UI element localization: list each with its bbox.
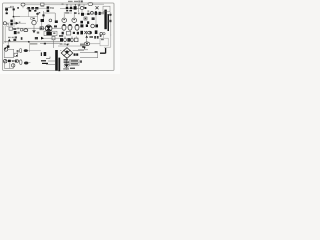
capacitor C21 — [44, 43, 46, 45]
speck in choke — [53, 32, 55, 34]
resistor R15 — [62, 32, 64, 35]
electrolytic C26 — [95, 11, 98, 15]
capacitor C19 — [88, 31, 92, 34]
jack sleeve — [20, 49, 22, 53]
table divider — [70, 62, 79, 64]
dark blob in relay box — [104, 10, 106, 12]
resistor R2 — [27, 7, 30, 9]
label text row — [60, 43, 63, 44]
transistor Q4 — [72, 18, 77, 23]
wire from J1 — [11, 22, 26, 24]
terminal J1 — [3, 22, 6, 25]
capacitor C25 plate — [41, 60, 46, 61]
speck row right2 — [78, 13, 80, 15]
label text q — [65, 12, 69, 13]
speck below speaker — [63, 68, 66, 69]
resistor R7 — [70, 7, 72, 9]
transistor Q1 — [80, 6, 83, 9]
rectifier BR1 X — [46, 26, 51, 31]
lamp DS3 — [20, 29, 23, 32]
lamp DS2 — [88, 3, 93, 6]
relay K1 box — [103, 6, 110, 12]
junction dot above bridge — [67, 44, 69, 46]
pilot lamp — [12, 64, 15, 67]
switch S3 fill — [41, 27, 43, 29]
bridge BR2 diamond — [61, 48, 73, 59]
resistor R19 — [80, 31, 83, 35]
connector J5 slash — [4, 60, 6, 62]
wire tube — [33, 25, 35, 30]
module U3 box — [74, 38, 78, 42]
wire top bus — [25, 3, 104, 6]
resistor R11 — [55, 20, 58, 23]
speck under lamp — [87, 10, 89, 11]
choke L1 box — [44, 31, 57, 35]
resistor R16 — [80, 24, 83, 27]
lamp DS1 — [21, 3, 25, 6]
label speck left — [62, 4, 64, 5]
wire from P1 — [28, 49, 41, 51]
capacitor C27 — [17, 7, 19, 9]
label 17m — [70, 68, 75, 69]
resistor R22 — [8, 60, 11, 62]
label amp — [80, 60, 82, 62]
capacitor C3 — [34, 10, 36, 12]
speck r3 — [17, 32, 19, 34]
label text small — [30, 43, 37, 44]
wire x37 vertical — [36, 12, 39, 22]
wire under arrow — [78, 50, 98, 58]
ground mark — [32, 30, 36, 33]
dot in K4 — [16, 55, 17, 56]
electrolytic C14 — [62, 25, 66, 31]
plug P1 — [24, 49, 28, 52]
transistor Q3 die — [64, 19, 65, 20]
jack sleeve 2 — [20, 60, 22, 65]
capacitor C23 — [74, 53, 76, 55]
capacitor C12 — [24, 29, 28, 32]
resistor Ra — [84, 7, 86, 9]
tube V1 — [32, 20, 36, 24]
transistor Q2 — [49, 19, 52, 22]
wire step — [46, 57, 50, 59]
switch S4 — [52, 36, 55, 39]
ground circle — [64, 63, 69, 68]
ground triangle — [64, 64, 68, 67]
wire transistor pair — [64, 12, 74, 17]
electrolytic C15 top — [69, 24, 72, 26]
transistor Q5 — [91, 12, 94, 15]
wire power row — [12, 22, 62, 28]
wire row2 left — [26, 8, 47, 11]
arrow above box — [100, 35, 102, 37]
resistor R12 — [81, 13, 84, 16]
module U1 — [60, 38, 63, 42]
second jack ring — [6, 24, 9, 27]
connector J5 — [3, 60, 6, 63]
capacitor C5 — [66, 10, 68, 11]
output box — [100, 38, 108, 46]
diode D1 X — [84, 31, 87, 34]
transformer T3 core bar — [104, 11, 106, 29]
electrolytic C16 top — [76, 24, 79, 26]
label row text — [8, 37, 11, 38]
switch S3 — [40, 27, 43, 30]
transistor Q6 — [91, 24, 95, 28]
relay K4 box — [14, 53, 18, 56]
label marks 1 — [41, 52, 42, 56]
wire meter vertical — [86, 34, 88, 42]
wire left mid verticals — [4, 17, 14, 44]
capacitor C17 — [73, 32, 75, 34]
switch S1 — [41, 3, 44, 6]
resistor R14 — [80, 21, 83, 24]
speck below speaker 2 — [67, 68, 69, 69]
node D dot — [33, 18, 35, 20]
diode D2 — [94, 36, 96, 39]
choke L1 winding — [46, 32, 51, 35]
label marks bl — [12, 60, 14, 62]
arrow down — [83, 47, 86, 50]
label 5 — [17, 50, 19, 52]
capacitor C11 — [14, 31, 17, 34]
wire drop from node C — [29, 42, 31, 52]
resistor R6 — [66, 7, 68, 9]
node C — [28, 41, 30, 43]
label text row c — [67, 43, 69, 44]
capacitor C24 — [76, 53, 78, 55]
tube V3 — [71, 38, 73, 42]
node D — [30, 17, 32, 19]
relay box K2 — [9, 27, 12, 30]
wire from J4 — [4, 49, 14, 58]
resistor R4 — [35, 7, 38, 9]
speck r2 — [17, 28, 19, 30]
wire right of bar — [108, 12, 112, 36]
wire long horizontal — [4, 41, 60, 43]
capacitor C10 — [92, 17, 95, 20]
module U2 — [67, 38, 70, 42]
label F — [89, 36, 93, 38]
diode X mark — [96, 6, 99, 9]
terminal pair J3 — [100, 32, 103, 35]
diode D2b — [97, 36, 99, 39]
label row text 2 — [12, 37, 14, 38]
electrolytic C14 top — [63, 24, 66, 26]
bridge BR2 X — [63, 50, 70, 56]
resistor R20 — [95, 30, 98, 34]
resistor R9b — [10, 23, 12, 26]
label marks right — [35, 37, 38, 39]
speaker plates — [64, 59, 69, 60]
winding dot 2 — [109, 20, 111, 22]
speck right of R5 — [50, 7, 52, 8]
capacitor C9 — [42, 14, 44, 16]
resistor R9 — [10, 20, 12, 23]
capacitor C13 label — [54, 25, 57, 27]
capacitor C6 — [69, 10, 72, 11]
resistor R3 — [31, 7, 34, 9]
label row text 3 — [15, 36, 17, 38]
terminal pair J3b — [103, 33, 105, 35]
meter M1 — [84, 42, 90, 46]
cross junction — [78, 4, 81, 6]
speck by choke — [37, 32, 39, 34]
contact mark — [95, 51, 98, 52]
capacitor C28 — [87, 21, 89, 24]
switch S1 underline — [41, 5, 45, 7]
blob under meter left — [82, 46, 85, 48]
capacitor C20 — [13, 39, 16, 41]
transistor Q3 — [62, 18, 67, 23]
node A — [52, 7, 54, 9]
rectifier BR1 wedge top — [46, 26, 50, 29]
capacitor C8 — [36, 13, 38, 15]
wire right corner — [99, 34, 111, 47]
label specks row — [80, 44, 86, 45]
speck row right — [74, 12, 77, 14]
cap ellipse bl — [15, 60, 19, 63]
capacitor C2 — [29, 10, 32, 12]
arrow right — [14, 22, 18, 24]
transformer T4 bar B — [58, 58, 60, 72]
wire bridge row — [60, 50, 84, 52]
relay K3 box — [66, 31, 70, 35]
transformer T3 core bar 2 — [108, 14, 110, 31]
node B — [13, 16, 15, 18]
contact marks — [13, 28, 16, 30]
resistor R21 — [7, 45, 10, 47]
tube V2 — [64, 38, 67, 42]
box text speck — [101, 39, 104, 40]
meter M1 dot — [86, 43, 88, 45]
resistor R10 — [41, 19, 44, 22]
rectifier BR1 wedge bottom — [46, 28, 50, 31]
wire y43.5 — [40, 40, 62, 48]
resistor R18 — [95, 24, 98, 27]
wire tail P2 — [28, 62, 30, 64]
arrow blob — [41, 37, 44, 40]
label text block 1 — [71, 60, 78, 61]
wire left vertical — [7, 11, 20, 17]
transformer T4 bar A — [55, 50, 58, 71]
capacitor C19 dark half — [90, 32, 92, 34]
capacitor C22 — [44, 52, 47, 56]
capacitor C25 plate2 — [42, 63, 48, 64]
label A mark — [21, 37, 23, 40]
label text block 2 — [71, 63, 78, 64]
capacitor C4 — [47, 10, 50, 12]
resistor R13 — [87, 13, 89, 15]
table box — [70, 60, 79, 66]
transistor Q4 die — [74, 19, 75, 20]
bridge BR2 center — [66, 51, 69, 54]
capacitor C1 — [13, 8, 15, 10]
label text row b — [64, 43, 67, 44]
wire drop left — [7, 42, 9, 47]
dot in S2 — [85, 18, 86, 19]
electrolytic C16 — [75, 25, 79, 31]
cap dark half — [15, 60, 17, 62]
label M — [79, 1, 80, 3]
wire right cluster — [84, 14, 104, 24]
wire y38 — [44, 37, 60, 39]
arrow mark — [8, 39, 11, 41]
resistor R17 — [86, 24, 88, 27]
rectifier BR1 — [45, 25, 52, 32]
switch S2 box — [84, 17, 87, 20]
resistor R23 — [99, 12, 101, 15]
resistor R5 — [47, 6, 50, 8]
electrolytic C15 — [68, 25, 72, 31]
wire thick stub — [100, 48, 106, 53]
capacitor C7 — [6, 12, 8, 14]
label text near bar — [100, 12, 104, 13]
speaker wire — [66, 57, 68, 70]
wire mid row — [14, 6, 38, 17]
speck r — [19, 22, 21, 24]
module stems — [65, 36, 76, 38]
wire to T4 — [46, 61, 55, 65]
label text T1 — [68, 1, 73, 2]
wire right meter — [80, 43, 100, 45]
meter arrow — [85, 35, 88, 38]
wire bottom-left — [4, 61, 20, 69]
dark dash wire — [59, 35, 63, 36]
wire mid-top cluster — [60, 4, 84, 13]
label M2 — [81, 1, 83, 3]
speck corner — [39, 12, 41, 13]
border frame — [3, 3, 114, 71]
winding dot 1 — [109, 14, 111, 16]
wire y44 mid — [58, 44, 84, 46]
capacitor C18 — [77, 32, 79, 35]
resistor R1 — [5, 8, 8, 10]
connector J4 wedge — [4, 48, 6, 50]
speaker plates 2 — [64, 62, 69, 63]
resistor R8 — [74, 6, 77, 9]
slash marks — [7, 23, 9, 25]
junction dots bus — [66, 4, 67, 5]
wire mid cluster — [44, 11, 56, 20]
wire top-left horizontal — [5, 6, 14, 12]
label text T2 — [74, 1, 78, 2]
connector J4 — [4, 48, 8, 52]
plug P2 — [24, 62, 28, 65]
